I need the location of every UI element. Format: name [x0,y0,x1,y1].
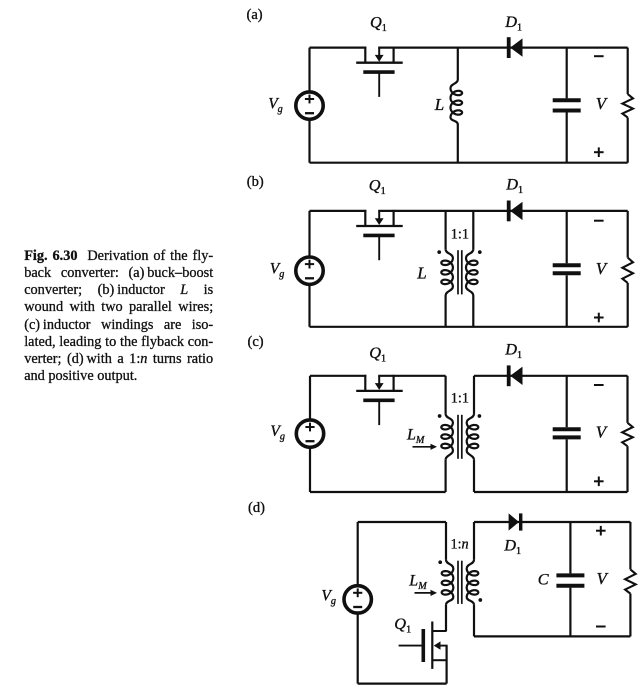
capacitor (b) [553,211,581,327]
wire: (c) secondary bottom rail [474,491,628,493]
capacitor (c) [553,376,581,492]
label V (d) [597,569,610,588]
figure caption [24,248,213,385]
circuit label (d) [248,500,265,516]
label Q1 (d) [394,614,411,636]
resistor (c) [622,376,633,492]
output minus (a) [594,55,604,57]
svg-text:L: L [434,95,444,114]
output plus (c) [594,477,604,487]
label Q1 (b) [369,176,386,198]
wire: (b) top rail right [378,210,628,212]
svg-text:D1: D1 [504,12,522,34]
resistor (b) [622,211,633,327]
circuit label (b) [247,174,264,190]
svg-text:(a): (a) [247,7,263,23]
wire: (a) bottom rail [310,162,628,164]
svg-text:1:1: 1:1 [451,227,469,243]
svg-text:L: L [416,264,426,283]
resistor (a) [622,48,633,163]
capacitor (a) [553,48,581,163]
wire: (a) top rail left [310,46,367,48]
label Q1 (c) [369,343,386,365]
label C (d) [538,570,550,589]
output plus (d) [596,526,606,536]
transformer secondary winding (b) [466,211,478,327]
label 1:1 (c) [451,390,469,406]
wire: (c) secondary top rail [474,375,628,377]
label D1 (d) [503,535,521,557]
svg-text:Vg: Vg [268,96,283,116]
dot secondary (d) [478,598,482,602]
transistor Q1 (c) [356,375,403,425]
output minus (c) [594,384,604,386]
transformer secondary winding (c) [467,376,479,492]
wire: (c) primary bottom rail [310,491,446,493]
voltage source Vg (b) [296,211,323,327]
arrow LM (c) [413,444,438,450]
dot primary (d) [438,560,442,564]
label Vg (a) [268,96,283,116]
label LM (d) [408,573,427,593]
svg-text:V: V [596,94,609,113]
svg-text:LM: LM [406,427,425,447]
dot primary (c) [438,414,442,418]
transformer primary winding (b) [441,211,453,327]
voltage source Vg (a) [296,48,323,163]
voltage source Vg (c) [296,376,323,492]
transistor Q1 (d) [399,622,448,684]
output minus (b) [594,220,604,222]
inductor L (a) [451,48,463,163]
label Vg (c) [270,423,285,443]
svg-text:Q1: Q1 [394,614,411,636]
transformer primary winding (c) [441,376,453,492]
label LM (c) [406,427,425,447]
label V (b) [596,259,609,278]
output plus (a) [594,147,604,157]
diode D1 (d) [509,513,523,530]
circuit label (c) [248,334,264,350]
transistor Q1 (b) [356,210,403,260]
diode D1 (c) [507,365,523,386]
voltage source Vg (d) [344,522,371,684]
wire: (b) bottom rail [310,326,628,328]
wire: (d) secondary top rail [474,521,630,523]
label L (b) [416,264,426,283]
wire: (c) primary top rail right [378,375,445,377]
transistor Q1 (a) [356,47,403,97]
svg-text:D1: D1 [505,174,523,196]
dot secondary (b) [478,250,482,254]
svg-text:Vg: Vg [270,423,285,443]
transformer core (b) [458,250,462,294]
label D1 (a) [504,12,522,34]
wire: (b) top rail left [310,210,367,212]
label 1:n (d) [451,537,469,553]
dot primary (b) [437,250,441,254]
diode D1 (b) [507,201,523,222]
label Vg (b) [270,261,285,281]
svg-text:V: V [597,569,610,588]
svg-text:D1: D1 [504,339,522,361]
wire: (a) top rail right [378,46,628,48]
svg-text:LM: LM [408,573,427,593]
svg-text:Vg: Vg [270,261,285,281]
transformer core (c) [458,415,462,459]
svg-text:(b): (b) [247,174,264,190]
label V (a) [596,94,609,113]
svg-text:(d): (d) [248,500,265,516]
transformer core (d) [458,561,462,604]
dot secondary (c) [478,414,482,418]
transformer secondary winding (d) [467,522,479,636]
label D1 (b) [505,174,523,196]
wire: (d) primary top rail [358,521,446,523]
svg-text:Q1: Q1 [370,13,387,34]
resistor (d) [625,522,636,636]
diode D1 (a) [507,37,523,58]
svg-text:D1: D1 [503,535,521,557]
transformer primary winding (d) [442,522,454,631]
output plus (b) [594,313,604,323]
svg-text:V: V [596,422,609,441]
svg-text:1:1: 1:1 [451,390,469,406]
wire: (d) secondary bottom rail [474,635,630,637]
label 1:1 (b) [451,227,469,243]
label L (a) [434,95,444,114]
svg-text:Q1: Q1 [369,343,386,365]
svg-text:(c): (c) [248,334,264,350]
capacitor C (d) [556,522,584,636]
wire: (c) primary top rail left [310,375,366,377]
arrow LM (d) [415,590,438,596]
svg-text:V: V [596,259,609,278]
svg-text:1:n: 1:n [451,537,469,553]
label V (c) [596,422,609,441]
circuit label (a) [247,7,263,23]
label Vg (d) [321,588,336,608]
output minus (d) [596,626,606,628]
wire: (d) primary bottom rail [358,682,447,684]
label D1 (c) [504,339,522,361]
label Q1 (a) [370,13,387,34]
svg-text:Vg: Vg [321,588,336,608]
svg-text:Q1: Q1 [369,176,386,198]
svg-text:C: C [538,570,550,589]
